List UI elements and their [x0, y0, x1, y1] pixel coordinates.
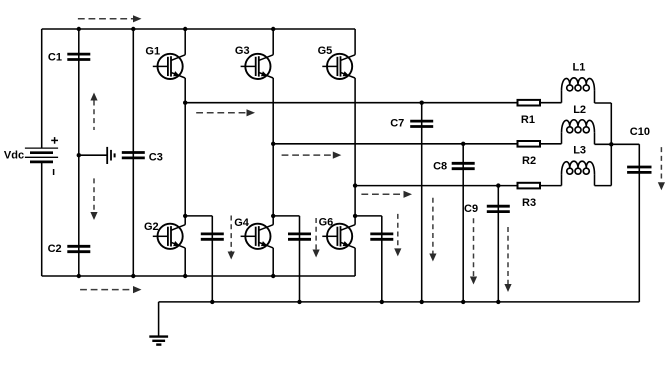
svg-text:C10: C10 [630, 126, 650, 138]
svg-text:G4: G4 [234, 217, 250, 229]
svg-text:C8: C8 [433, 160, 447, 172]
svg-text:L3: L3 [573, 144, 586, 156]
svg-text:C3: C3 [149, 152, 163, 164]
svg-text:C2: C2 [48, 243, 62, 255]
svg-text:G5: G5 [318, 45, 333, 57]
svg-text:L1: L1 [573, 61, 586, 73]
svg-text:G3: G3 [235, 45, 250, 57]
svg-text:G1: G1 [145, 45, 160, 57]
svg-text:G6: G6 [319, 217, 334, 229]
svg-text:R2: R2 [522, 155, 536, 167]
svg-text:G2: G2 [144, 221, 159, 233]
svg-text:C7: C7 [390, 118, 404, 130]
svg-text:Vdc: Vdc [4, 150, 24, 162]
svg-text:R3: R3 [522, 197, 536, 209]
svg-text:R1: R1 [521, 114, 535, 126]
svg-text:C1: C1 [48, 52, 62, 64]
svg-text:L2: L2 [573, 104, 586, 116]
svg-text:C9: C9 [464, 203, 478, 215]
